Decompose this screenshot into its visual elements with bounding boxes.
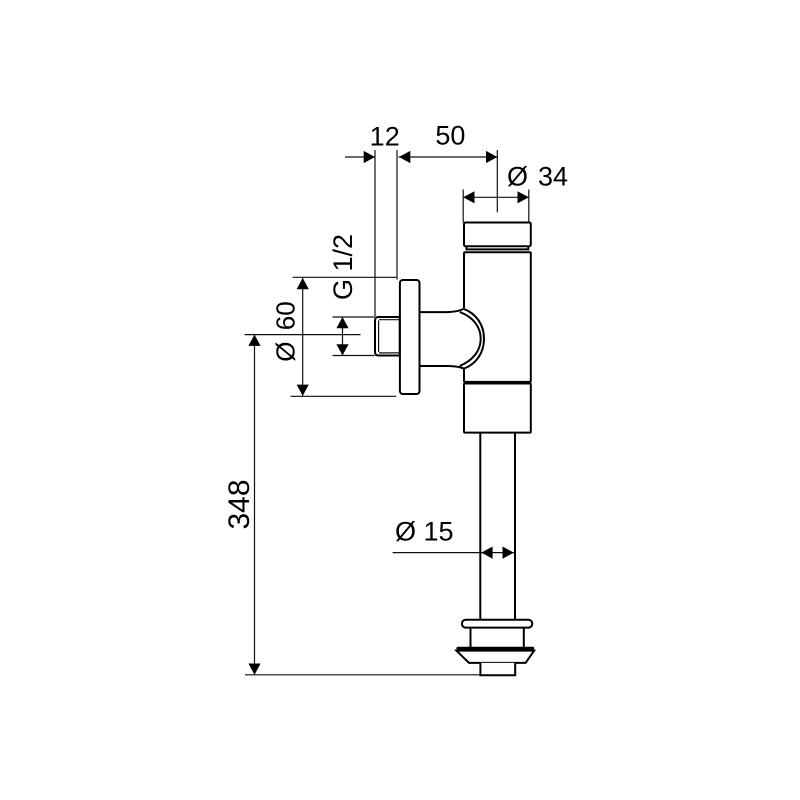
extension line 348 top bbox=[245, 334, 361, 336]
coupling nut bbox=[464, 384, 531, 433]
inlet elbow dome inner bbox=[460, 312, 481, 366]
svg-text:348: 348 bbox=[223, 479, 256, 529]
svg-text:12: 12 bbox=[370, 122, 400, 152]
extension line right of 12 / left of 50 bbox=[396, 150, 398, 280]
dimension line 12/50 horizontal bbox=[345, 156, 375, 158]
G1/2 thread nipple outer bbox=[375, 317, 400, 356]
outlet down tube right wall bbox=[514, 433, 516, 620]
dimension line D34 bbox=[463, 196, 529, 198]
arrow G1/2 top bbox=[336, 317, 348, 328]
arrow D60 top bbox=[297, 278, 309, 289]
svg-text:Ø: Ø bbox=[507, 162, 528, 192]
svg-text:Ø: Ø bbox=[271, 342, 301, 362]
arrow D15 left bbox=[481, 547, 492, 559]
svg-text:34: 34 bbox=[538, 162, 568, 192]
wall flange plate bbox=[400, 280, 420, 394]
arrow D60 bottom bbox=[297, 385, 309, 396]
valve main body bbox=[464, 252, 531, 382]
dimension line D60 vertical bbox=[302, 278, 304, 396]
G1/2 thread nipple inner lines bbox=[379, 320, 400, 353]
inlet socket top line bbox=[420, 309, 464, 312]
extension line left of 12 bbox=[374, 150, 376, 317]
arrow D15 right bbox=[503, 547, 514, 559]
arrow D34 left bbox=[463, 191, 474, 203]
valve body top cap bbox=[464, 223, 531, 247]
arrow 50 left bbox=[399, 151, 410, 163]
svg-text:50: 50 bbox=[435, 121, 465, 151]
svg-text:60: 60 bbox=[271, 301, 301, 330]
inner line D15 bbox=[481, 552, 515, 554]
arrow 50 right bbox=[486, 151, 497, 163]
svg-text:G 1/2: G 1/2 bbox=[328, 234, 358, 300]
extension line G1/2 top bbox=[333, 316, 375, 318]
outlet bottom collar bbox=[480, 663, 515, 675]
inlet socket tube bbox=[420, 308, 484, 369]
arrow D34 right bbox=[518, 191, 529, 203]
dimension line 50 span bbox=[399, 156, 498, 158]
dimension line 348 vertical bbox=[254, 335, 256, 675]
outlet cone bbox=[456, 651, 534, 663]
outlet down tube left wall bbox=[479, 433, 481, 620]
extension line D60 bottom bbox=[291, 395, 397, 397]
arrow 348 bottom bbox=[248, 664, 260, 675]
extension line D60 top bbox=[293, 276, 397, 278]
leader line D15 bbox=[393, 552, 480, 554]
inlet elbow dome outer bbox=[464, 309, 485, 369]
outlet flange disc bbox=[462, 620, 532, 628]
dimension line G1/2 vertical bbox=[342, 317, 344, 356]
arrow 12 left bbox=[364, 151, 375, 163]
extension line D34 left bbox=[462, 190, 464, 223]
extension line body axis bbox=[496, 150, 498, 212]
arrow G1/2 bottom bbox=[336, 344, 348, 355]
groove ring under cap bbox=[467, 246, 529, 249]
extension line G1/2 bottom bbox=[333, 355, 375, 357]
inlet socket bottom line bbox=[420, 366, 464, 369]
extension line 348 bottom bbox=[245, 674, 480, 676]
arrow 348 top bbox=[248, 335, 260, 346]
outlet middle cylinder bbox=[471, 628, 524, 647]
extension line D34 right bbox=[528, 190, 530, 223]
outlet thick ring band bbox=[456, 647, 534, 651]
svg-text:Ø 15: Ø 15 bbox=[395, 517, 454, 547]
